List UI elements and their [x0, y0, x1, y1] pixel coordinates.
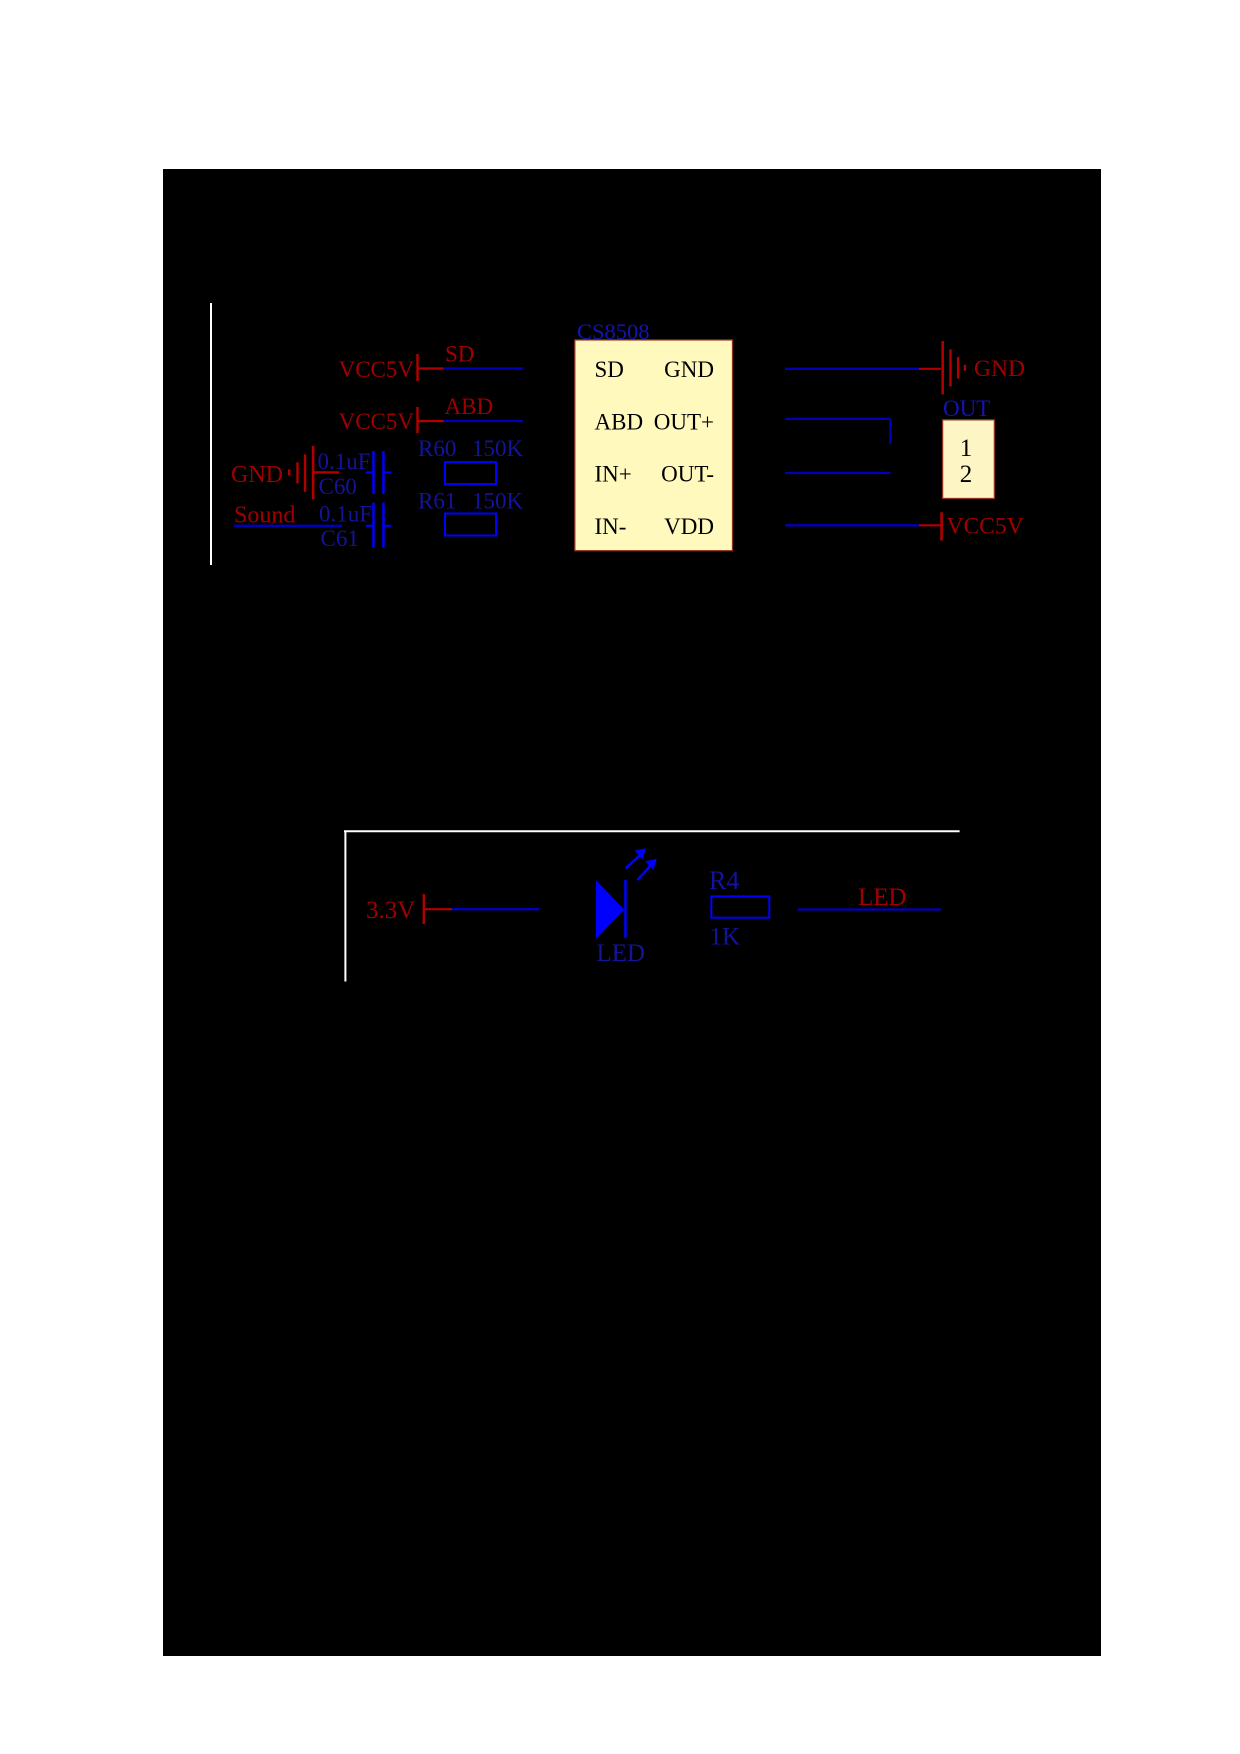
svg-text:OUT+: OUT+	[654, 410, 714, 435]
svg-text:SD: SD	[445, 342, 474, 367]
svg-text:150K: 150K	[472, 489, 524, 514]
svg-text:150K: 150K	[472, 436, 524, 461]
svg-text:LED: LED	[858, 884, 907, 911]
svg-text:1K: 1K	[710, 924, 741, 951]
svg-text:VDD: VDD	[664, 514, 714, 539]
svg-text:VCC5V: VCC5V	[339, 409, 415, 434]
svg-text:ABD: ABD	[445, 394, 494, 419]
svg-text:Sound: Sound	[234, 502, 295, 528]
svg-text:R61: R61	[418, 489, 456, 514]
svg-text:1: 1	[960, 435, 973, 462]
svg-text:GND: GND	[974, 356, 1025, 382]
svg-text:ABD: ABD	[595, 410, 644, 435]
svg-text:C61: C61	[321, 526, 359, 551]
svg-text:VCC5V: VCC5V	[947, 514, 1024, 540]
svg-text:LED: LED	[597, 940, 646, 967]
svg-text:C60: C60	[319, 474, 357, 499]
svg-text:R60: R60	[418, 436, 456, 461]
svg-text:3.3V: 3.3V	[366, 897, 415, 924]
svg-text:VCC5V: VCC5V	[339, 357, 415, 382]
svg-text:IN-: IN-	[595, 514, 627, 539]
svg-text:IN+: IN+	[595, 462, 632, 487]
svg-text:OUT-: OUT-	[661, 462, 714, 487]
svg-text:0.1uF: 0.1uF	[319, 502, 372, 527]
svg-text:R4: R4	[709, 866, 739, 895]
svg-text:GND: GND	[664, 357, 714, 382]
svg-text:SD: SD	[595, 357, 624, 382]
svg-text:2: 2	[960, 461, 973, 488]
svg-text:GND: GND	[231, 462, 283, 488]
svg-text:0.1uF: 0.1uF	[318, 449, 371, 474]
svg-text:OUT: OUT	[943, 396, 990, 421]
